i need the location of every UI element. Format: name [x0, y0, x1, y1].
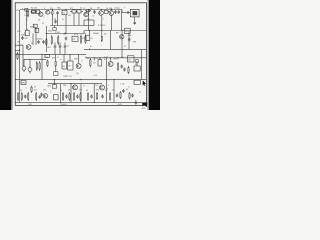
wire stub x94 [93, 58, 95, 61]
svg-text:220: 220 [95, 58, 98, 60]
capacitor C25 [132, 94, 134, 96]
transistor Q12 [100, 85, 105, 90]
wire vertical G [111, 15, 113, 31]
wire stub r [57, 15, 59, 26]
wire vertical P [80, 84, 82, 103]
resistor R5 [72, 10, 76, 13]
svg-text:4k7: 4k7 [93, 63, 96, 65]
resistor R26 [69, 92, 71, 94]
svg-text:2SA49: 2SA49 [21, 34, 26, 37]
wire rail mid-right [84, 30, 146, 32]
capacitor C12 [64, 45, 66, 47]
capacitor C13 [121, 65, 123, 67]
resistor R17 [89, 58, 91, 60]
transistor Q8 [76, 64, 81, 69]
box driver transformer [52, 85, 56, 89]
svg-text:IFT2 455: IFT2 455 [98, 25, 105, 27]
svg-text:10k: 10k [49, 13, 52, 15]
svg-text:05: 05 [86, 90, 88, 92]
page background [0, 0, 160, 110]
resistor R1 [27, 10, 29, 12]
junction dots [19, 50, 20, 51]
resistor R14 [36, 61, 38, 63]
svg-text:Q8: Q8 [76, 73, 78, 75]
svg-text:05: 05 [124, 46, 126, 48]
diode D4 [28, 68, 32, 72]
IC box U1 [62, 11, 67, 15]
transistor Q10 [43, 94, 48, 99]
svg-text:U2: U2 [73, 39, 75, 41]
capacitor C1 [57, 11, 59, 13]
wire short seg [50, 25, 84, 27]
resistor R27 [73, 92, 75, 94]
capacitor Cb [55, 20, 57, 22]
capacitor C16 [41, 93, 43, 95]
schematic border frame [15, 3, 146, 106]
wire stub t [73, 13, 75, 26]
resistor R13 [85, 35, 87, 37]
resistor R34 [17, 52, 19, 54]
svg-text:U5: U5 [68, 66, 70, 68]
IC box U6 [128, 56, 134, 62]
IC box U4 [62, 62, 67, 69]
svg-text:U6: U6 [128, 59, 130, 61]
resistor R2 [31, 11, 32, 13]
resistor R24 [35, 92, 37, 94]
svg-text:+B: +B [91, 38, 93, 40]
box right3 [134, 66, 140, 71]
wire rail lower [16, 53, 86, 55]
resistor R6 [77, 10, 81, 13]
svg-text:1k: 1k [46, 63, 48, 65]
svg-text:R20: R20 [34, 90, 37, 92]
transistor Q6 [26, 45, 31, 50]
right black scan bar [149, 0, 160, 110]
box FL1 [86, 35, 90, 40]
capacitor C9 [128, 38, 130, 40]
capacitor C23 [116, 94, 118, 96]
svg-text:XT: XT [33, 26, 35, 28]
resistor Rreg [47, 60, 49, 62]
capacitor C2 [94, 10, 96, 12]
svg-text:SP8: SP8 [133, 42, 136, 44]
wire left vertical bus [19, 10, 21, 102]
capacitor C14 [124, 68, 126, 70]
wire left stub [20, 44, 23, 46]
svg-text:B: B [82, 61, 83, 63]
wire vertical F [101, 16, 103, 31]
svg-text:455: 455 [97, 8, 100, 10]
wire vertical S [113, 80, 115, 103]
capacitor C17 [24, 95, 26, 97]
ground symbol [135, 100, 137, 103]
wire vertical N [60, 84, 62, 103]
svg-text:x1: x1 [26, 88, 28, 90]
diode D3 [22, 66, 26, 70]
transistor Q11 [73, 85, 78, 90]
wire +V top rail [20, 9, 122, 11]
capacitor C19 [66, 95, 68, 97]
svg-text:1k: 1k [60, 90, 62, 92]
wire vertical I [121, 31, 123, 58]
svg-text:2k2: 2k2 [79, 90, 82, 92]
resistor R16 [55, 60, 57, 62]
wire rail center-right [84, 48, 146, 50]
box below rail [53, 28, 56, 31]
svg-text:2SB77 OTL: 2SB77 OTL [63, 76, 72, 78]
wire short seg2 [84, 19, 94, 21]
svg-text:05: 05 [57, 57, 59, 59]
transistor Q9 [108, 62, 113, 67]
IC box U3 [125, 28, 131, 33]
svg-text:140: 140 [17, 42, 20, 44]
resistor R23 [27, 92, 29, 94]
resistor R15 [39, 61, 41, 63]
svg-text:05: 05 [139, 92, 141, 94]
resistor R9 [45, 38, 47, 40]
wire vertical E [88, 10, 90, 31]
svg-text:x2: x2 [128, 87, 130, 89]
svg-text:IFT3: IFT3 [74, 34, 78, 36]
resistor R29 [87, 92, 89, 94]
wire vert x23 [22, 45, 24, 66]
svg-text:det: det [104, 33, 107, 36]
wire stub q [52, 16, 54, 26]
resistor R30 [96, 92, 98, 94]
svg-text:1k: 1k [84, 33, 86, 35]
resistor R20 [31, 86, 33, 87]
wire vertical D [65, 15, 67, 34]
svg-text:in: in [60, 59, 61, 61]
transistor Q7 [120, 35, 124, 39]
capacitor C4 [118, 10, 120, 12]
svg-text:10: 10 [90, 8, 92, 10]
wire vertical K [101, 31, 103, 35]
wire vertical J [89, 31, 91, 36]
wire ground rail bottom [16, 101, 147, 103]
svg-text:77: 77 [83, 85, 85, 87]
resistor R22 [21, 92, 23, 94]
capacitor C26 [22, 36, 24, 38]
svg-text:470: 470 [96, 90, 99, 92]
IC box U5 [68, 61, 73, 70]
transistor Q1 [39, 12, 43, 16]
svg-text:01: 01 [118, 8, 120, 10]
svg-text:Q1: Q1 [38, 20, 40, 22]
resistor R3 [37, 10, 40, 13]
transistor Q2 [46, 10, 50, 14]
svg-text:OUT: OUT [95, 85, 98, 87]
capacitor C10 [54, 45, 56, 47]
box label right [134, 80, 140, 84]
svg-text:AM: AM [30, 26, 33, 29]
box BATT [21, 80, 26, 84]
capacitor C20 [77, 95, 79, 97]
svg-text:TR-610: TR-610 [60, 104, 66, 106]
wire vertical B [45, 26, 47, 52]
resistor R7 [85, 10, 86, 12]
svg-text:R2 10k: R2 10k [31, 8, 37, 10]
switch box S1 [35, 28, 39, 32]
capacitor C3 [115, 10, 117, 12]
svg-text:B+: B+ [90, 46, 92, 48]
wire vertical H [121, 10, 123, 31]
svg-text:R 4k7: R 4k7 [55, 32, 60, 34]
resistor R8 [104, 10, 108, 13]
svg-text:U3: U3 [125, 31, 127, 33]
dark arrow pointer [143, 80, 147, 85]
svg-text:2SA101: 2SA101 [37, 38, 43, 41]
wire vertical Q [93, 84, 95, 103]
svg-text:2SB77: 2SB77 [113, 59, 119, 61]
capacitor C21 [91, 95, 93, 97]
svg-text:C1: C1 [83, 8, 85, 10]
capacitor C8 [65, 37, 67, 39]
svg-text:2SB75: 2SB75 [104, 57, 109, 59]
svg-text:100: 100 [43, 90, 46, 92]
svg-text:100: 100 [121, 57, 124, 59]
svg-text:U1: U1 [63, 13, 65, 15]
svg-text:C 100: C 100 [120, 84, 124, 86]
svg-text:2k: 2k [67, 46, 69, 48]
box bottom xfmr [54, 95, 59, 100]
resistor RFL [101, 35, 103, 36]
box C15 block [54, 72, 58, 76]
resistor R10 [51, 35, 53, 37]
capacitor on T1 wire [126, 11, 128, 14]
svg-text:x 0.5: x 0.5 [94, 75, 98, 77]
IC box U2 [72, 36, 78, 41]
wire rail bottom-section top [16, 79, 147, 81]
svg-text:455k: 455k [128, 35, 132, 37]
svg-text:4-23: 4-23 [118, 104, 122, 106]
svg-text:VR1: VR1 [25, 38, 28, 40]
box osc [98, 60, 102, 66]
svg-text:R1: R1 [25, 15, 27, 17]
svg-text:U4: U4 [62, 66, 64, 68]
resistor R25 [62, 92, 64, 94]
wire vertical O [70, 84, 72, 103]
svg-text:01: 01 [62, 19, 64, 21]
capacitor C24 [122, 89, 124, 91]
wire vert x137b [136, 61, 138, 66]
potentiometer VR1 [25, 30, 29, 36]
wire vertical M [41, 54, 43, 79]
svg-text:1k5: 1k5 [87, 19, 90, 21]
svg-text:D1: D1 [42, 23, 44, 25]
transformer T1 outer [130, 9, 139, 17]
resistor R31 [109, 92, 111, 94]
capacitor C11 [59, 45, 61, 47]
resistor R4 [52, 10, 54, 11]
crystal X1 [33, 24, 37, 27]
wire vertical A [26, 10, 28, 31]
svg-text:455: 455 [68, 15, 71, 17]
capacitor C5 [134, 21, 136, 23]
svg-text:B: B [107, 88, 108, 90]
wire T1 drop [134, 17, 136, 21]
svg-text:25: 25 [20, 90, 22, 92]
diode D5 [135, 59, 139, 63]
resistor R33 [129, 92, 131, 94]
resistor R11 [57, 35, 59, 37]
wire left seg y45 [16, 44, 23, 46]
svg-text:2k: 2k [80, 8, 82, 10]
resistor R21 [17, 92, 19, 94]
svg-text:100: 100 [86, 58, 89, 60]
wire vertical R [105, 58, 107, 103]
box REG1 [45, 54, 49, 57]
svg-text:C2: C2 [92, 16, 94, 18]
capacitor C18 [39, 95, 41, 97]
wire vert x33 [32, 34, 34, 46]
resistor R32 [120, 91, 122, 93]
wire rail n2 [48, 83, 102, 85]
resistor R19 [128, 66, 130, 68]
svg-text:4-23: 4-23 [142, 108, 146, 110]
wire stub s [65, 14, 67, 17]
svg-text:+: + [87, 83, 88, 85]
wire stub u [78, 13, 80, 26]
svg-text:C 10: C 10 [44, 57, 48, 59]
wire to output transformer [122, 12, 130, 14]
wire right vert x141 [141, 50, 143, 80]
resistor R18 [117, 62, 119, 64]
left black scan bar [0, 0, 11, 110]
wire right vert x129 [128, 31, 130, 50]
box input filter [25, 8, 28, 11]
wire res-top connector [24, 58, 46, 60]
svg-text:1k: 1k [106, 8, 108, 10]
wire mid seg3 [93, 20, 95, 26]
svg-text:1k: 1k [112, 90, 114, 92]
capacitor C7 [43, 40, 45, 42]
capacitor C22 [102, 95, 104, 97]
svg-text:3: 3 [60, 8, 61, 10]
transistor Q3 [84, 12, 88, 16]
wire rail lower-right [86, 57, 146, 59]
transistor Q4 [99, 11, 104, 16]
svg-text:05: 05 [31, 43, 33, 45]
transistor Q5 [109, 11, 114, 16]
svg-text:OSC: OSC [28, 104, 33, 106]
svg-text:VOL: VOL [17, 31, 21, 33]
svg-text:2SA12: 2SA12 [93, 32, 99, 35]
wire stubs to amp blocks [55, 54, 57, 59]
wire vertical L [110, 31, 112, 50]
svg-text:50: 50 [68, 90, 70, 92]
wire rail mid-left [46, 33, 84, 35]
wire vertical C [35, 28, 37, 45]
dark corner arrow [142, 103, 147, 108]
svg-text:C9: C9 [54, 18, 56, 20]
capacitor C6 [38, 40, 40, 42]
transformer T1 inner [133, 11, 137, 15]
svg-text:50: 50 [34, 86, 36, 88]
svg-text:4k7: 4k7 [52, 58, 55, 60]
svg-text:NFB: NFB [48, 86, 51, 88]
resistor R28 [80, 92, 82, 94]
resistor R12 [80, 35, 82, 37]
wire rail center stub [16, 49, 20, 51]
